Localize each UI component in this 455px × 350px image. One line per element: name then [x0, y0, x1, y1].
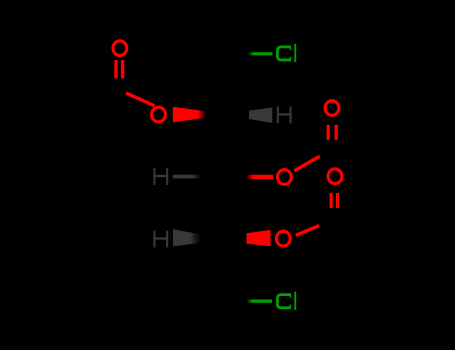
wedge bond C2 to O (red half, wide at O) [173, 107, 206, 123]
acetyl group 3: carbonyl O label [328, 169, 342, 184]
H on C3 [153, 168, 168, 185]
acetyl group 1: C=O double bond [114, 60, 117, 78]
H on C4 [153, 231, 168, 248]
bond C1 to Cl (green half) [249, 52, 273, 55]
acetyl group 2: C=O double bond [327, 125, 330, 140]
Cl on C1 [277, 44, 296, 62]
wedge bond C2 to H (gray half, wide at H) [249, 108, 272, 124]
H on C2 [277, 107, 292, 124]
acetyl group 2: carbonyl O label [325, 101, 339, 116]
ester O on C3 [278, 170, 292, 185]
wedge bond C4 to O (red half, wide at O) [247, 230, 271, 246]
bond C3 to O (red half) [247, 175, 273, 179]
bond O to acetyl-2 carbonyl C (red half) [294, 156, 320, 171]
wedge bond C4 to H (gray half, wide at H) [173, 229, 200, 246]
acetyl group 3: C=O double bond [330, 193, 333, 208]
acetyl group 1: C-O ester bond (red half) [126, 93, 155, 106]
bond O to acetyl-3 carbonyl C (red half) [296, 226, 319, 236]
Cl on C5 [277, 292, 296, 310]
bond C5 to Cl (green half) [247, 300, 272, 303]
bond C3 to H (gray half) [173, 175, 201, 179]
acetyl group 1: carbonyl O label [113, 41, 127, 56]
ester O on C4 [276, 231, 290, 246]
ester O on C2 [152, 107, 166, 122]
